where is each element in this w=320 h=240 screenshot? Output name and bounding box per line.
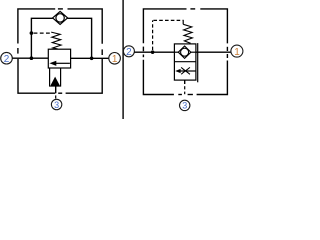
wire valve to port 1 — [71, 57, 109, 59]
enclosure right edge short dash — [226, 47, 228, 51]
enclosure bottom-left corner — [143, 60, 174, 95]
enclosure left edge dash above port — [142, 47, 144, 52]
wire dashed stub to port 3 upper dash — [184, 86, 186, 89]
wire port2 to valve — [12, 57, 48, 59]
wire dashed pilot riser — [152, 20, 154, 50]
spring above valve — [183, 24, 192, 43]
restrictor cell flow line — [180, 70, 196, 72]
seat channel left wall — [49, 68, 51, 87]
wire dashed stub to port 3 lower dash — [184, 92, 186, 95]
enclosure right edge short dash — [101, 49, 103, 55]
enclosure top edge short dash — [58, 8, 63, 10]
node junction dot at port1 line — [90, 57, 94, 61]
relief valve flow arrow — [56, 62, 70, 64]
wire valve to port 1 — [196, 51, 231, 53]
port 3 circle — [51, 99, 61, 109]
enclosure bottom-right corner — [66, 59, 103, 93]
restrictor arc 2 — [181, 67, 190, 74]
enclosure top-right corner — [200, 9, 227, 44]
svg-text:1: 1 — [234, 47, 240, 58]
restrictor cell arrowhead — [175, 69, 180, 73]
seat poppet filled triangle — [50, 77, 61, 87]
wire check valve to port1 drop — [68, 18, 92, 58]
svg-text:2: 2 — [126, 47, 132, 58]
wire dashed pilot top run — [153, 19, 182, 21]
check cell diamond — [178, 46, 191, 58]
relief valve body box — [48, 49, 70, 68]
enclosure bottom edge short dash — [58, 92, 62, 94]
enclosure bottom-left corner — [18, 59, 55, 93]
seat channel right wall — [60, 68, 62, 87]
port 3 circle — [180, 100, 190, 110]
valve body 2-cell box — [174, 44, 196, 80]
enclosure bottom edge dash right — [188, 94, 193, 96]
check cell ball — [181, 48, 189, 56]
node junction dot pilot tap — [151, 50, 155, 54]
port 1 circle — [231, 45, 243, 57]
enclosure bottom edge dash left — [178, 94, 182, 96]
node pilot tap dot — [30, 31, 34, 35]
enclosure top-right corner — [68, 9, 103, 44]
enclosure top edge short dash — [190, 8, 195, 10]
wire pilot corner to spring — [182, 20, 184, 25]
wire dashed stub to port 3 — [55, 95, 57, 98]
enclosure left edge short dash — [17, 48, 19, 54]
enclosure chain-line box top-left corner — [143, 9, 186, 43]
enclosure chain-line box top-left corner — [18, 9, 55, 44]
svg-text:1: 1 — [112, 54, 118, 65]
wire seat to bottom edge — [55, 87, 57, 94]
port 2 circle — [123, 46, 134, 57]
enclosure bottom-right corner — [197, 61, 228, 95]
wire dashed pilot line to spring — [34, 32, 51, 34]
enclosure right edge lower dash — [226, 54, 228, 58]
valve side rail second line — [197, 43, 199, 82]
divider line between the two schematics — [122, 0, 124, 119]
wire riser up and over to check valve — [31, 18, 52, 58]
port 2 circle — [1, 52, 13, 64]
wire port2 to valve — [134, 51, 174, 53]
check cell: right stub — [191, 51, 196, 53]
enclosure left edge dash below port — [142, 55, 144, 58]
node junction dot at riser — [30, 56, 34, 60]
check cell: left stub — [174, 51, 178, 53]
wire valve bottom stub — [184, 80, 186, 84]
svg-text:2: 2 — [4, 54, 10, 65]
check valve C1 diamond — [53, 11, 68, 24]
check valve C1 ball — [56, 14, 64, 22]
restrictor arc 1 — [181, 67, 190, 74]
spring of relief valve — [51, 32, 61, 49]
svg-text:3: 3 — [54, 100, 59, 110]
port 1 circle — [109, 53, 121, 65]
valve cell divider — [174, 61, 196, 63]
svg-text:3: 3 — [182, 101, 187, 111]
